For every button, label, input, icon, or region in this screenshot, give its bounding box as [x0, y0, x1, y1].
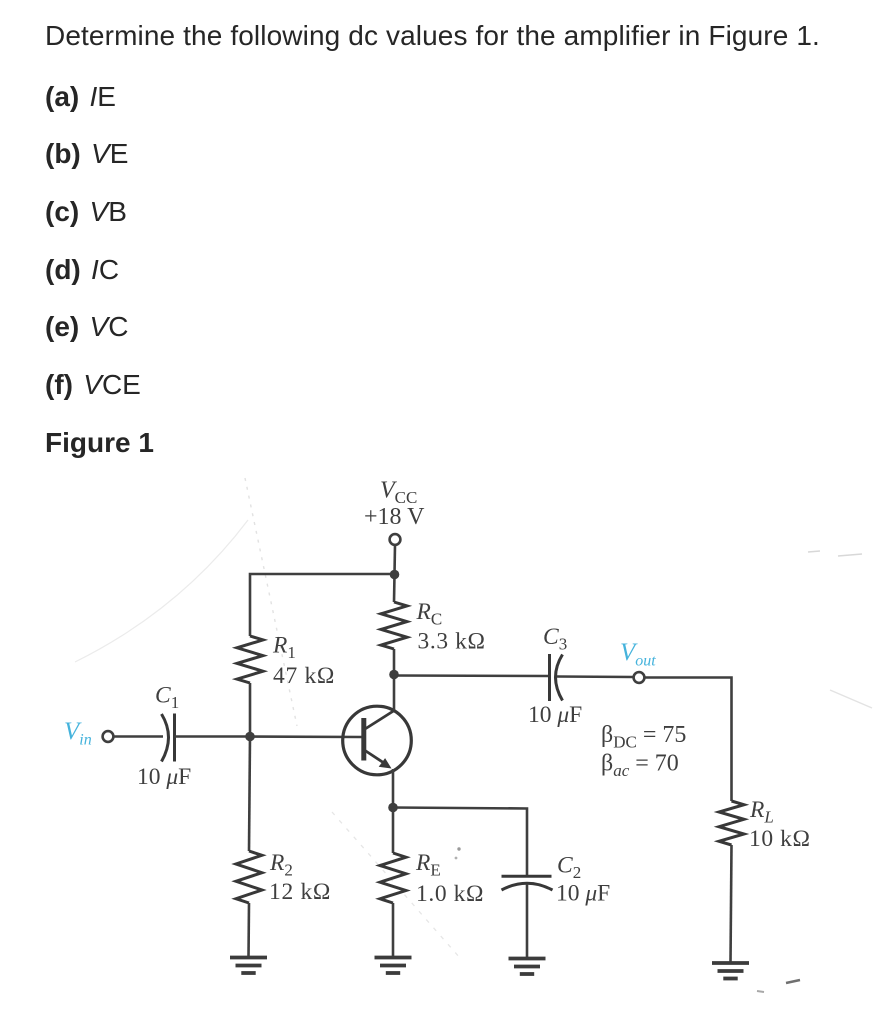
svg-text:βDC = 75: βDC = 75	[601, 722, 686, 752]
Vout terminal	[634, 672, 645, 683]
node emitter junction	[388, 803, 398, 813]
node collector junction	[389, 670, 399, 680]
svg-text:RC: RC	[416, 599, 443, 629]
wire C2 to ground	[526, 884, 529, 958]
wire VCC terminal to rail	[393, 545, 396, 574]
scan artifact faint diagonal right	[830, 690, 872, 708]
capacitor C2 curved plate	[502, 883, 553, 890]
node base junction	[245, 732, 255, 742]
wire C1 to base node	[175, 735, 251, 738]
wire Vout to RL	[645, 678, 732, 802]
ground R2	[230, 956, 267, 960]
scan artifact faint diagonal	[245, 478, 297, 726]
resistor RC	[381, 602, 407, 649]
wire base node to R2	[249, 737, 250, 852]
wire base node to transistor base	[250, 735, 362, 738]
resistor RL	[719, 801, 744, 845]
ground RL	[712, 961, 749, 965]
svg-text:10 kΩ: 10 kΩ	[749, 826, 811, 852]
svg-text:12 kΩ: 12 kΩ	[269, 879, 331, 905]
transistor Q1 emitter arrowhead	[379, 758, 392, 768]
capacitor C2 flat plate	[502, 875, 552, 878]
svg-text:1.0 kΩ: 1.0 kΩ	[416, 881, 484, 907]
svg-text:C3: C3	[543, 624, 567, 654]
svg-text:RE: RE	[415, 850, 441, 880]
svg-text:10 μF: 10 μF	[556, 881, 610, 907]
resistor R1	[237, 636, 263, 683]
resistor R2	[236, 851, 262, 903]
svg-text:+18 V: +18 V	[364, 504, 425, 530]
wire collector node to C3	[394, 674, 549, 677]
svg-text:10 μF: 10 μF	[528, 702, 582, 728]
svg-text:R1: R1	[272, 633, 296, 663]
ground C2	[509, 957, 546, 961]
capacitor C3 curved plate	[556, 655, 563, 701]
transistor Q1 collector stroke	[365, 710, 395, 729]
transistor Q1 circle	[343, 706, 412, 775]
wire C3 to Vout terminal	[557, 675, 634, 678]
scan artifact faint curve left	[75, 520, 248, 662]
svg-text:Vin: Vin	[64, 718, 92, 749]
Vin terminal	[103, 731, 114, 742]
wire RC bottom to collector node	[393, 649, 396, 675]
scan artifact colon dots	[457, 847, 460, 850]
svg-text:10 μF: 10 μF	[137, 764, 191, 790]
svg-text:47 kΩ: 47 kΩ	[273, 663, 335, 689]
scan artifact bottom right dash	[786, 980, 800, 983]
ground RE	[375, 956, 412, 960]
wire collector node to transistor	[393, 675, 396, 711]
svg-text:3.3 kΩ: 3.3 kΩ	[418, 629, 486, 655]
wire VCC rail to R1 top	[250, 574, 395, 636]
svg-text:R2: R2	[269, 850, 293, 880]
svg-text:C1: C1	[155, 683, 179, 713]
capacitor C1 curved plate	[162, 714, 169, 762]
capacitor C1 flat plate	[173, 714, 176, 762]
wire transistor emitter down	[392, 769, 395, 808]
transistor Q1 base bar	[361, 718, 366, 761]
VCC terminal	[390, 534, 401, 545]
svg-text:βac = 70: βac = 70	[601, 751, 679, 781]
svg-text:C2: C2	[557, 853, 581, 883]
svg-text:Vout: Vout	[620, 639, 656, 670]
wire R1 bottom to base node	[249, 683, 252, 737]
svg-text:VCC: VCC	[380, 478, 417, 508]
wire emitter node to C2	[393, 808, 527, 877]
capacitor C3 flat plate	[548, 654, 551, 701]
scan artifact faint diagonal lower	[332, 812, 460, 958]
wire emitter node to RE	[392, 808, 395, 854]
wire R2 to ground	[247, 903, 250, 957]
wire Vin to C1	[114, 735, 164, 738]
wire RE to ground	[392, 903, 395, 957]
svg-text:RL: RL	[749, 797, 774, 827]
node VCC rail junction	[390, 570, 400, 580]
wire RL to ground	[731, 845, 732, 963]
wire rail junction to RC	[393, 575, 396, 603]
transistor Q1 emitter stroke	[365, 751, 387, 766]
scan artifact faint marks top right	[808, 551, 862, 556]
resistor RE	[380, 853, 406, 903]
